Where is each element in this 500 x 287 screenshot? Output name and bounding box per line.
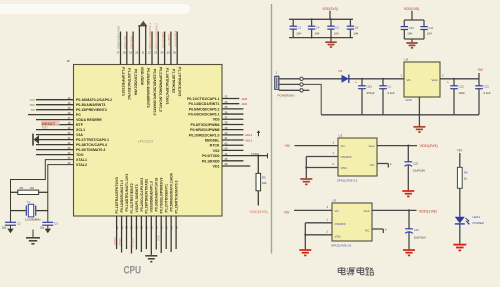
ground arrow below C2 <box>10 225 12 228</box>
svg-text:XTAL1: XTAL1 <box>76 158 87 162</box>
svg-text:TMS: TMS <box>29 103 35 107</box>
capacitor C1 decoupling <box>292 19 294 26</box>
svg-text:VSS: VSS <box>341 166 347 170</box>
svg-text:Vin: Vin <box>407 78 412 82</box>
wire top bus cap bank A <box>289 18 353 20</box>
svg-text:RTF: RTF <box>76 123 84 127</box>
svg-text:VDD3V3-VDD3V3-1: VDD3V3-VDD3V3-1 <box>148 23 152 50</box>
diode D6 <box>342 75 349 83</box>
svg-text:1M: 1M <box>30 186 35 190</box>
CPU right pin numbers <box>225 95 228 166</box>
svg-text:P0.14/DCD1/EINT1: P0.14/DCD1/EINT1 <box>189 102 220 106</box>
svg-text:SPX1117M3-3.3: SPX1117M3-3.3 <box>337 179 358 183</box>
svg-text:P1.27/TDO/EINT1: P1.27/TDO/EINT1 <box>165 184 169 212</box>
svg-text:SPX1117M3-1.8: SPX1117M3-1.8 <box>331 244 352 248</box>
svg-text:LED1: LED1 <box>473 215 481 219</box>
junction dot C14 <box>382 78 384 80</box>
svg-text:P0.6/MOSI/CAP0.2: P0.6/MOSI/CAP0.2 <box>189 107 220 111</box>
svg-text:C2: C2 <box>17 222 21 226</box>
svg-text:V3A: V3A <box>76 133 83 137</box>
wire U2 Vout <box>377 145 417 147</box>
capacitor C4 decoupling <box>311 19 313 26</box>
crystal Y1 <box>11 210 27 212</box>
svg-text:P0.1/RXD0: P0.1/RXD0 <box>202 159 220 163</box>
wire +5V to U3 Vin <box>294 209 332 211</box>
svg-text:D6: D6 <box>339 69 343 73</box>
svg-text:V3-V3/VBAT: V3-V3/VBAT <box>161 32 165 48</box>
svg-text:R8: R8 <box>20 186 24 190</box>
svg-text:VDD(3V3): VDD(3V3) <box>420 143 439 148</box>
svg-text:U3: U3 <box>333 199 337 203</box>
wire +5V to R6 <box>459 153 461 167</box>
svg-text:P0.29/TDI/MAT0.3: P0.29/TDI/MAT0.3 <box>76 148 105 152</box>
wire U3 Vout <box>372 209 417 211</box>
svg-text:VSS: VSS <box>335 235 341 239</box>
svg-text:VSSD: VSSD <box>113 237 117 245</box>
wire U6 ground pin <box>418 97 420 126</box>
svg-text:P0.9/RXD1/PWM6: P0.9/RXD1/PWM6 <box>190 128 219 132</box>
CPU bottom inner pin labels rotated <box>115 173 178 213</box>
svg-text:ON/OFF: ON/OFF <box>341 155 352 159</box>
svg-text:R9: R9 <box>262 176 266 180</box>
svg-text:P1.20/TRACESYNC: P1.20/TRACESYNC <box>127 68 131 100</box>
wire bottom bus cap bank A <box>289 37 353 39</box>
svg-text:C1: C1 <box>388 85 392 89</box>
svg-text:P0.27/TRST/CAP0.1: P0.27/TRST/CAP0.1 <box>76 138 109 142</box>
svg-text:Y1: Y1 <box>27 200 31 204</box>
svg-text:VSSA-VSSA-VSS: VSSA-VSSA-VSS <box>117 26 121 49</box>
ground symbol C20 red <box>402 190 414 192</box>
svg-text:TDI: TDI <box>31 108 36 112</box>
capacitor C14 input <box>382 79 384 86</box>
CPU top pin numbers <box>116 51 176 55</box>
wire stub pin3 <box>303 89 309 91</box>
svg-text:TDO: TDO <box>76 153 84 157</box>
CPU left pin name labels <box>76 98 112 167</box>
IC U1 CPU chip body LPC2114 <box>74 65 223 217</box>
svg-text:P0.13/DTR1/MAT1.1/V3: P0.13/DTR1/MAT1.1/V3 <box>125 174 129 212</box>
svg-text:104: 104 <box>315 31 320 35</box>
svg-text:104: 104 <box>407 32 412 36</box>
svg-text:Vout: Vout <box>363 209 369 213</box>
capacitor C6 decoupling <box>349 19 351 26</box>
tick symbol near right pins <box>258 131 260 136</box>
terminal circle pin2 <box>300 83 303 86</box>
wire pin1 to diode anode <box>303 78 341 80</box>
power section title text (dian yuan dian lu drawn as strokes) <box>338 267 345 275</box>
svg-text:VD1: VD1 <box>213 164 220 168</box>
svg-text:CB1: CB1 <box>367 85 373 89</box>
svg-text:VSS: VSS <box>157 235 161 241</box>
CPU right inner pin labels <box>187 97 220 168</box>
regulator U2 SPX1117-3.3 <box>338 138 377 176</box>
regulator U6 7805 <box>404 62 440 97</box>
svg-text:RTCK: RTCK <box>210 144 220 148</box>
svg-text:R6: R6 <box>464 170 468 174</box>
svg-text:XTAL2: XTAL2 <box>76 163 87 167</box>
svg-text:+5V: +5V <box>457 149 464 153</box>
junction dot C12 <box>453 78 455 80</box>
junction dots cap bank A <box>311 18 313 20</box>
ground symbol C21 red <box>403 249 415 251</box>
svg-text:470uF: 470uF <box>367 91 375 95</box>
capacitor C13 output <box>478 79 480 86</box>
svg-text:P0.11/CTS1/CAP1.1: P0.11/CTS1/CAP1.1 <box>187 97 220 101</box>
svg-text:VS2: VS2 <box>213 149 220 153</box>
svg-text:20p: 20p <box>40 227 45 230</box>
svg-text:0.1uF: 0.1uF <box>484 91 491 95</box>
capacitor C10 decoupling <box>403 20 405 27</box>
ground symbol crystal circuit <box>32 230 34 238</box>
regulator U3 SPX1117-1.8 <box>332 203 372 241</box>
svg-text:+5V: +5V <box>477 68 484 72</box>
svg-text:VDD(3V3): VDD(3V3) <box>249 209 268 214</box>
svg-text:P0.4/SCK0/CAP0.1: P0.4/SCK0/CAP0.1 <box>188 113 219 117</box>
CPU top inner pin labels rotated <box>121 67 182 115</box>
svg-text:P1.31/TRST/EINT2: P1.31/TRST/EINT2 <box>130 183 134 213</box>
svg-text:104: 104 <box>427 32 432 36</box>
wire XTAL2 routing to crystal circuit <box>48 165 74 223</box>
svg-text:P0.23/VDD1V8A: P0.23/VDD1V8A <box>134 69 138 96</box>
svg-text:C3: C3 <box>54 222 58 226</box>
svg-text:PC: PC <box>76 113 81 117</box>
svg-text:10uF/16V: 10uF/16V <box>414 235 426 239</box>
LED power indicator <box>455 217 465 224</box>
svg-text:C21: C21 <box>414 228 420 232</box>
junction on TXD0 wire <box>257 155 259 157</box>
capacitor C20 output <box>407 146 409 162</box>
wire connector pin1 <box>279 78 300 80</box>
svg-text:VDD(1V8): VDD(1V8) <box>404 7 419 11</box>
svg-text:VD3: VD3 <box>213 118 220 122</box>
svg-text:P0.10/RD2/CAP1.0: P0.10/RD2/CAP1.0 <box>189 133 220 137</box>
wire U3 ground vertical <box>304 223 306 250</box>
svg-text:10k: 10k <box>262 181 267 185</box>
svg-text:Vin: Vin <box>335 209 340 213</box>
svg-text:V18-V18A: V18-V18A <box>129 36 133 49</box>
svg-text:P0.30/AIN3/EINT3: P0.30/AIN3/EINT3 <box>76 103 105 107</box>
svg-text:C2: C2 <box>335 25 339 29</box>
decorative top highlight band <box>0 4 190 14</box>
divider line between sheets <box>271 4 273 254</box>
wire bottom bus cap bank B <box>404 38 424 40</box>
svg-text:Vout: Vout <box>368 144 374 148</box>
wire U6 output <box>440 78 479 80</box>
ground arrow below C3 <box>47 225 49 228</box>
svg-text:P0.5/MISO/MAT0.1/AD6: P0.5/MISO/MAT0.1/AD6 <box>170 173 174 211</box>
wire diode to regulator input <box>349 78 404 80</box>
terminal circle pin1 <box>300 77 303 80</box>
CPU top pin wires <box>121 26 178 65</box>
svg-text:P1.16/TRACEPKT0/V3: P1.16/TRACEPKT0/V3 <box>115 177 119 213</box>
svg-text:P1.17/TRACE1/V3: P1.17/TRACE1/V3 <box>178 67 182 96</box>
wire ground rail <box>321 114 479 116</box>
junction dot C21 <box>408 209 410 211</box>
svg-text:DBGSEL: DBGSEL <box>205 138 221 142</box>
svg-text:P0.12/DSR1/MAT1.0: P0.12/DSR1/MAT1.0 <box>120 180 124 213</box>
svg-text:P0.28/TCK/CAP0.4: P0.28/TCK/CAP0.4 <box>76 143 107 147</box>
wire +5V tick <box>478 73 480 79</box>
svg-text:U6: U6 <box>405 58 409 62</box>
svg-text:P0.15/PREV/EINT2: P0.15/PREV/EINT2 <box>76 108 107 112</box>
svg-text:Vout: Vout <box>431 78 437 82</box>
svg-text:P0.8/TXD1/PWM4: P0.8/TXD1/PWM4 <box>191 123 220 127</box>
wire R6 to LED <box>459 188 461 217</box>
capacitor C7 input electrolytic <box>361 79 363 86</box>
svg-text:C20: C20 <box>413 161 419 165</box>
svg-text:POWER: POWER <box>473 221 485 225</box>
power symbol VDD top of CPU <box>138 25 147 27</box>
terminal circle pin3 <box>300 89 303 92</box>
svg-text:104: 104 <box>334 31 339 35</box>
svg-text:U2: U2 <box>339 134 343 138</box>
ground symbol LED red <box>453 244 466 246</box>
svg-text:GND: GND <box>406 98 412 102</box>
svg-text:+: + <box>355 81 357 85</box>
wire VDD stem cap bank B <box>411 11 413 20</box>
svg-text:P1.18/TRACE2: P1.18/TRACE2 <box>171 69 175 93</box>
wire U3 VSS to ground <box>305 234 332 236</box>
capacitor C2 crystal load left <box>5 221 16 223</box>
capacitor C3 crystal load right <box>42 221 53 223</box>
svg-text:VSSD1: VSSD1 <box>131 237 135 247</box>
svg-text:P0.21/PWM5/AD1.6/CAP1.3: P0.21/PWM5/AD1.6/CAP1.3 <box>159 67 163 112</box>
capacitor C2 decoupling <box>330 19 332 26</box>
svg-text:VSS/P1.30/EINT3: VSS/P1.30/EINT3 <box>135 184 139 212</box>
wire U3 NC pin <box>372 228 383 230</box>
svg-text:CPU: CPU <box>124 264 142 276</box>
svg-text:AD12: AD12 <box>245 133 253 137</box>
wire U2 NC pin <box>377 163 388 165</box>
svg-text:C10: C10 <box>409 26 415 30</box>
svg-text:P1.21/PIPESTAT0: P1.21/PIPESTAT0 <box>121 67 125 96</box>
svg-text:C12: C12 <box>459 85 465 89</box>
wire below R9 <box>257 191 259 206</box>
svg-text:P1.19/TRACEPKT3/V3: P1.19/TRACEPKT3/V3 <box>165 68 169 104</box>
svg-text:P0.2/SCL/CAP0.0/V3: P0.2/SCL/CAP0.0/V3 <box>140 178 144 212</box>
svg-text:P1.28/TDI/EINT0/AD2: P1.28/TDI/EINT0/AD2 <box>145 179 149 214</box>
svg-text:P0.16/MAT0.2/CAP0.2: P0.16/MAT0.2/CAP0.2 <box>76 98 112 102</box>
CPU bottom net labels rotated <box>113 235 161 247</box>
svg-text:POWER(9V): POWER(9V) <box>277 94 294 98</box>
CPU left pin wires <box>28 100 74 155</box>
svg-text:VDD(1V8): VDD(1V8) <box>419 208 438 213</box>
resistor R9 pull-up <box>256 173 261 190</box>
svg-text:104: 104 <box>296 31 301 35</box>
CPU bottom pin numbers <box>115 226 178 229</box>
wire top bus cap bank B <box>404 19 424 21</box>
svg-text:P0.0/TXD0: P0.0/TXD0 <box>202 154 219 158</box>
connector J1 power jack <box>275 76 279 89</box>
svg-text:P0.22/AD0.5/CAP0.0/MAT0.0: P0.22/AD0.5/CAP0.0/MAT0.0 <box>152 69 156 115</box>
wire XTAL1 routing to crystal circuit <box>11 160 74 223</box>
svg-text:C6: C6 <box>355 25 359 29</box>
power arrow VSS on left pin <box>32 134 34 146</box>
wire pin2 down to ground rail <box>303 84 321 114</box>
capacitor C21 output <box>408 210 410 228</box>
wire U2 ONOFF to ground <box>306 156 338 158</box>
svg-text:P0.25/AD0.4/AIN4/EINT2: P0.25/AD0.4/AIN4/EINT2 <box>146 68 150 108</box>
svg-text:C4: C4 <box>316 25 320 29</box>
svg-text:AD13: AD13 <box>245 139 253 143</box>
CPU left pin numbers <box>68 96 71 165</box>
wire connector pin2 <box>279 83 300 85</box>
wire LED to ground <box>459 225 461 244</box>
svg-text:Vin: Vin <box>341 144 346 148</box>
capacitor C11 decoupling <box>423 20 425 27</box>
svg-text:VSSD: VSSD <box>118 238 122 246</box>
junction dot C7 <box>361 78 363 80</box>
svg-text:TCK: TCK <box>30 98 36 102</box>
node RESET net label <box>41 120 60 126</box>
wire U3 ONOFF to ground <box>305 222 332 224</box>
svg-text:VDD(3V3): VDD(3V3) <box>322 7 337 11</box>
ground symbol U3 red <box>299 249 311 251</box>
wire connector pin3 <box>279 89 300 91</box>
wire from TXD0 down to pull-up resistor <box>257 156 259 174</box>
svg-text:+5V: +5V <box>284 211 291 215</box>
svg-text:VDD3V3-VDD3V3-2: VDD3V3-VDD3V3-2 <box>155 23 159 50</box>
svg-text:ON/OFF: ON/OFF <box>335 222 346 226</box>
ground symbol U2 <box>300 178 312 180</box>
wire U2 VSS to ground <box>306 167 338 169</box>
svg-text:+5V: +5V <box>284 144 291 148</box>
CPU right pin wires <box>222 99 268 166</box>
svg-text:P1.26/RTCK/MAT0.3: P1.26/RTCK/MAT0.3 <box>174 180 178 213</box>
svg-text:VDD-VDD8: VDD-VDD8 <box>140 67 144 85</box>
svg-text:RESET: RESET <box>42 121 56 126</box>
svg-text:20p: 20p <box>2 227 7 230</box>
wire U2 ground vertical <box>305 157 307 179</box>
svg-text:LPC2114: LPC2114 <box>138 140 153 144</box>
junction dot C20 <box>407 145 409 147</box>
svg-text:10uF/16V: 10uF/16V <box>413 169 425 173</box>
svg-text:V3-V3/VREF: V3-V3/VREF <box>173 30 177 47</box>
svg-text:VDDA RESERR: VDDA RESERR <box>76 118 102 122</box>
ground symbol U6 <box>413 126 425 128</box>
svg-text:104: 104 <box>353 31 358 35</box>
svg-text:C1: C1 <box>298 25 302 29</box>
resistor R8 feedback <box>11 191 18 193</box>
svg-text:C13: C13 <box>484 85 490 89</box>
svg-text:VSSD/DBGEN/P1.3: VSSD/DBGEN/P1.3 <box>150 181 154 212</box>
ground symbol below CPU <box>145 255 157 257</box>
svg-text:XCL1: XCL1 <box>76 128 85 132</box>
capacitor C12 output electrolytic <box>453 79 455 86</box>
CPU top net labels rotated <box>117 23 178 50</box>
ground symbol cap bank B <box>411 39 413 43</box>
wire TXD0 end tick <box>267 153 269 158</box>
svg-text:P0.3/SDA/EINT1/V18: P0.3/SDA/EINT1/V18 <box>155 178 159 212</box>
svg-text:10uF: 10uF <box>459 91 466 95</box>
svg-text:+: + <box>447 81 449 85</box>
CPU bottom pin wires <box>117 216 176 255</box>
svg-text:11.0592MHz: 11.0592MHz <box>25 217 41 221</box>
svg-text:0.1uF: 0.1uF <box>388 91 395 95</box>
svg-text:C11: C11 <box>428 26 433 30</box>
wire VDD stem cap bank A <box>329 11 331 19</box>
svg-text:V18A-V18: V18A-V18 <box>123 35 127 49</box>
svg-text:TDO: TDO <box>42 126 47 130</box>
svg-text:AD9: AD9 <box>242 102 248 106</box>
wire +5V to U2 Vin <box>295 145 339 147</box>
svg-text:V3-VBAT: V3-VBAT <box>167 34 171 46</box>
svg-text:P0.7/SSEL0/PWM2/V3: P0.7/SSEL0/PWM2/V3 <box>160 177 164 213</box>
ground symbol cap bank A <box>330 38 332 42</box>
resistor R6 <box>457 167 462 188</box>
svg-text:AD8: AD8 <box>242 97 248 101</box>
